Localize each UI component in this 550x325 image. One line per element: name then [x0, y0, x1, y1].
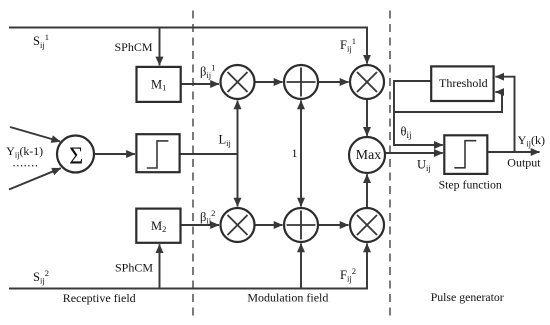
- svg-text:Sij1: Sij1: [33, 32, 49, 50]
- svg-text:SPhCM: SPhCM: [115, 40, 153, 54]
- svg-text:Fij1: Fij1: [340, 36, 356, 54]
- svg-text:Fij2: Fij2: [340, 266, 356, 284]
- svg-text:βij2: βij2: [200, 208, 215, 226]
- svg-text:Max: Max: [356, 147, 381, 162]
- svg-text:θij: θij: [401, 124, 412, 140]
- svg-text:Yij(k): Yij(k): [518, 133, 545, 149]
- svg-text:βij1: βij1: [200, 63, 215, 81]
- svg-text:Modulation field: Modulation field: [247, 291, 328, 305]
- svg-text:Lij: Lij: [219, 132, 231, 148]
- svg-text:Threshold: Threshold: [439, 76, 488, 90]
- svg-text:.......: .......: [13, 156, 39, 170]
- svg-text:Receptive field: Receptive field: [63, 291, 136, 305]
- svg-text:Uij: Uij: [417, 157, 431, 173]
- svg-text:Output: Output: [507, 156, 541, 170]
- svg-text:Sij2: Sij2: [33, 268, 49, 286]
- svg-text:Pulse generator: Pulse generator: [431, 290, 504, 304]
- svg-text:Step function: Step function: [439, 178, 502, 192]
- svg-text:M1: M1: [151, 77, 166, 92]
- svg-text:M2: M2: [151, 219, 166, 234]
- svg-text:SPhCM: SPhCM: [115, 261, 153, 275]
- svg-text:1: 1: [292, 146, 298, 160]
- svg-text:Σ: Σ: [69, 144, 83, 170]
